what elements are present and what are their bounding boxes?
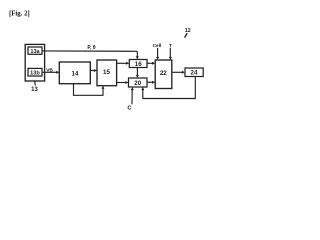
wire 16 down to 20: [136, 68, 138, 76]
wire 15 to 20: [117, 82, 126, 84]
wire 16 to 22: [147, 62, 153, 64]
box 15: [97, 60, 117, 86]
svg-text:24: 24: [191, 70, 198, 77]
box 13 (outer sensor unit): [25, 44, 44, 81]
box 14: [59, 62, 90, 84]
wire 20 to 22: [147, 81, 153, 83]
svg-text:T: T: [169, 43, 172, 49]
wire bottom U between 14 and 15: [74, 84, 104, 96]
svg-text:P, θ: P, θ: [87, 45, 95, 51]
box 20: [129, 78, 148, 87]
svg-text:12: 12: [185, 28, 191, 34]
svg-text:VB: VB: [46, 67, 53, 73]
box 13b: [28, 68, 42, 76]
box 16: [129, 60, 147, 68]
box 13a: [28, 47, 42, 55]
wire C into 20 bottom: [131, 90, 133, 105]
svg-text:14: 14: [72, 70, 79, 77]
svg-text:20: 20: [134, 80, 141, 87]
svg-text:13: 13: [31, 87, 38, 93]
svg-text:22: 22: [160, 70, 167, 77]
leader line for label 13: [34, 81, 37, 86]
leader line for 12: [185, 33, 188, 37]
wire T arrow into 22 top: [169, 48, 171, 58]
svg-text:16: 16: [135, 61, 142, 68]
wire 15 to 16: [117, 62, 127, 64]
box 24: [185, 68, 203, 77]
wire Cell arrow into 22 top: [157, 48, 159, 58]
svg-text:Cell: Cell: [153, 43, 162, 49]
wire 22 to 24: [172, 71, 182, 73]
box 22: [155, 60, 172, 89]
svg-text:[Fig. 2]: [Fig. 2]: [9, 10, 30, 17]
wire VB from 13b to 14: [42, 71, 57, 73]
wire feedback 24 to 20 bottom: [143, 77, 196, 99]
svg-text:15: 15: [103, 69, 110, 76]
svg-text:13a: 13a: [30, 49, 40, 55]
wire P,theta from 13a to node above 16: [42, 50, 137, 52]
wire 14 to 15: [91, 70, 95, 72]
wire down into box 16 with arrow: [136, 51, 138, 57]
svg-text:13b: 13b: [30, 71, 40, 77]
